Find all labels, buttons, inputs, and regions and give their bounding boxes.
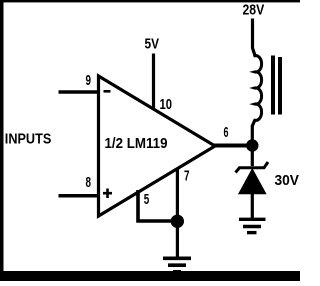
- svg-text:1/2 LM119: 1/2 LM119: [105, 136, 168, 152]
- wire output pin 6 to node A: [213, 144, 248, 148]
- svg-text:7: 7: [184, 168, 190, 184]
- svg-text:9: 9: [86, 73, 92, 89]
- node A junction dot: [246, 139, 258, 151]
- ground (zener): [239, 219, 266, 232]
- wire pin 5 to ground junction: [138, 190, 172, 221]
- svg-text:28V: 28V: [243, 3, 265, 19]
- svg-text:30V: 30V: [275, 173, 300, 189]
- frame (decorative): [0, 0, 300, 2]
- wire input 8: [59, 194, 101, 198]
- ground (op-amp pins 5,7): [163, 258, 191, 272]
- svg-text:5: 5: [144, 192, 150, 208]
- wire 5V supply to pin 10: [152, 54, 155, 111]
- wire zener to ground: [251, 193, 254, 219]
- svg-text:10: 10: [160, 97, 173, 113]
- junction dot pins 5-7: [171, 215, 184, 228]
- inductor core bars: [271, 56, 275, 115]
- svg-text:8: 8: [86, 175, 92, 191]
- wire node A to zener: [251, 150, 254, 166]
- svg-text:INPUTS: INPUTS: [5, 132, 52, 148]
- inductor L1: [255, 56, 262, 121]
- wire input 9: [59, 90, 101, 94]
- op-amp U1 1/2 LM119: [99, 76, 216, 216]
- wire pin 7 down to ground: [176, 168, 179, 257]
- svg-text:6: 6: [224, 125, 229, 141]
- svg-text:5V: 5V: [145, 37, 160, 53]
- zener diode D1: [236, 162, 269, 194]
- wire inductor to node A: [252, 120, 255, 140]
- wire 28V to inductor: [253, 19, 255, 56]
